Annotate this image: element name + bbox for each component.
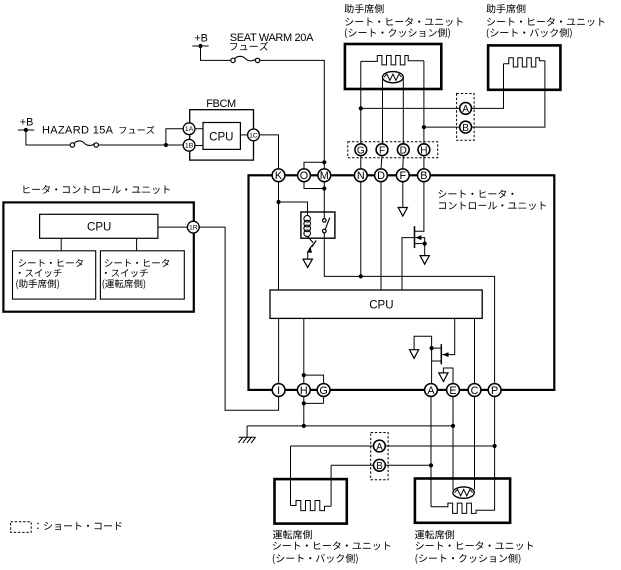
terminal N (top) bbox=[354, 169, 367, 182]
heater control unit box bbox=[3, 202, 193, 311]
passenger seat back label bbox=[486, 4, 525, 13]
seat heater control unit label bbox=[438, 189, 513, 198]
wire P to cushion heater bbox=[494, 396, 496, 510]
svg-text:B: B bbox=[462, 123, 469, 134]
wire CPU to passenger switch bbox=[60, 238, 62, 251]
CPU (seat heater control unit) bbox=[270, 290, 482, 318]
wire CPU to 1R bbox=[158, 226, 188, 228]
wires connectors to terminals bbox=[361, 156, 424, 169]
heater control unit label bbox=[23, 185, 169, 194]
wire relay contact to N and P bbox=[324, 233, 494, 384]
ground (chassis) bbox=[246, 426, 248, 437]
wire N to relay line bbox=[360, 182, 362, 277]
svg-text:G: G bbox=[357, 146, 365, 157]
svg-text:B: B bbox=[376, 461, 383, 472]
wire H to CPU with G bridge bbox=[303, 318, 305, 383]
wire C to CPU bbox=[474, 318, 476, 383]
svg-text:B: B bbox=[420, 170, 427, 182]
connector D bbox=[397, 144, 409, 156]
ground line bbox=[247, 425, 453, 427]
seat heater switch (driver) box bbox=[100, 251, 184, 299]
svg-text:H: H bbox=[300, 385, 308, 397]
terminal G (bottom) bbox=[317, 384, 330, 397]
wire H below box to ground line bbox=[303, 396, 305, 426]
terminal 1R bbox=[187, 221, 199, 233]
seat heater switch (passenger) box bbox=[13, 251, 96, 299]
svg-text:P: P bbox=[491, 385, 498, 397]
relay contact bbox=[323, 219, 327, 223]
svg-text:F: F bbox=[379, 146, 385, 157]
terminal O (top) bbox=[298, 169, 311, 182]
seat heater unit (driver seat back) box bbox=[275, 479, 347, 523]
wire O-M bridge below bbox=[304, 182, 324, 189]
svg-text:CPU: CPU bbox=[87, 222, 111, 234]
svg-text:A: A bbox=[376, 442, 383, 453]
wire SEAT WARM fuse to O/M terminals bbox=[260, 60, 324, 162]
svg-text:E: E bbox=[449, 385, 456, 397]
wire M to relay contact bbox=[323, 189, 325, 219]
wire 1R to terminal I bbox=[199, 227, 278, 410]
transistor Q2 bbox=[414, 226, 416, 248]
terminal A (bottom) bbox=[425, 384, 438, 397]
wire E to cushion thermistor bbox=[452, 396, 454, 489]
driver cushion label bbox=[415, 530, 454, 539]
ground arrow (Q2) bbox=[420, 256, 429, 265]
heater element (passenger cushion) bbox=[361, 56, 424, 65]
wire D to CPU bbox=[380, 182, 382, 290]
wire thermistor to F bbox=[382, 78, 384, 143]
svg-text:N: N bbox=[357, 170, 365, 182]
wire B to transistor Q2 bbox=[415, 182, 424, 232]
wire A-row driver bbox=[291, 446, 374, 506]
terminal 1A bbox=[183, 123, 195, 135]
terminal C (bottom) bbox=[468, 384, 481, 397]
wire G-H bridge below box bbox=[304, 396, 324, 403]
ground arrow (Q3 left) bbox=[410, 350, 419, 359]
thermistor (driver cushion) bbox=[453, 487, 474, 498]
relay K1 bbox=[301, 212, 335, 238]
svg-text:H: H bbox=[420, 146, 427, 157]
svg-text:A: A bbox=[427, 385, 435, 397]
svg-text:FBCM: FBCM bbox=[206, 98, 236, 110]
terminal 1C bbox=[248, 129, 260, 141]
terminal B (top) bbox=[418, 169, 431, 182]
svg-text:1B: 1B bbox=[185, 143, 194, 150]
wire O-M bridge above bbox=[304, 162, 324, 169]
svg-text:M: M bbox=[320, 170, 329, 182]
wire CPU to 1A/1B bbox=[195, 129, 203, 146]
seat heater unit (passenger cushion) box bbox=[345, 44, 441, 89]
terminal E (bottom) bbox=[447, 384, 460, 397]
wire I to CPU bbox=[278, 318, 280, 383]
svg-text:D: D bbox=[377, 170, 385, 182]
svg-text:1C: 1C bbox=[249, 132, 258, 139]
svg-text:D: D bbox=[400, 146, 407, 157]
terminal 1B bbox=[183, 139, 195, 151]
short code connector (G F D H) bbox=[348, 142, 438, 158]
wire K to relay coil and CPU bbox=[278, 182, 280, 290]
terminal K (top) bbox=[272, 169, 285, 182]
wire element to G bbox=[360, 61, 362, 143]
svg-text:G: G bbox=[319, 385, 327, 397]
wire element to connector A bbox=[472, 64, 504, 109]
connector G bbox=[355, 144, 367, 156]
wire F stub bbox=[402, 182, 404, 208]
short code connector (passenger A/B) bbox=[457, 94, 475, 141]
wire Q3 node to ground arrow bbox=[414, 336, 432, 349]
wire G to connector A bbox=[361, 107, 460, 109]
terminal P (bottom) bbox=[488, 384, 501, 397]
CPU (heater control unit) bbox=[40, 214, 158, 238]
legend short code box bbox=[11, 522, 32, 533]
connector A (passenger) bbox=[460, 103, 472, 115]
terminal F (top) bbox=[396, 169, 409, 182]
ground arrow (relay driver) bbox=[303, 259, 312, 267]
heater element (driver cushion) bbox=[431, 503, 495, 513]
wire element to H bbox=[423, 61, 425, 144]
svg-text:+B: +B bbox=[194, 33, 208, 45]
svg-text:1R: 1R bbox=[189, 225, 198, 232]
connector F bbox=[376, 144, 388, 156]
fuse SEAT WARM 20A bbox=[231, 58, 235, 62]
svg-text:1A: 1A bbox=[185, 126, 194, 133]
passenger cushion label bbox=[345, 4, 384, 13]
ground arrow (F) bbox=[398, 208, 407, 217]
wire 1C to terminal K bbox=[259, 135, 278, 169]
short code connector (driver) bbox=[371, 433, 388, 480]
wire HAZARD fuse to FBCM 1A/1B bbox=[99, 144, 184, 146]
seat heater unit (driver cushion) box bbox=[415, 479, 510, 523]
svg-text:O: O bbox=[300, 170, 308, 182]
svg-text:A: A bbox=[462, 104, 469, 115]
svg-text:CPU: CPU bbox=[209, 131, 233, 143]
connector A (driver) bbox=[374, 440, 386, 452]
connector H bbox=[418, 144, 430, 156]
terminal D (top) bbox=[375, 169, 388, 182]
connector B (passenger) bbox=[460, 121, 472, 133]
wire element to connector B bbox=[472, 61, 545, 127]
thermistor (passenger cushion) bbox=[383, 72, 404, 83]
connector B (driver) bbox=[374, 459, 386, 471]
heater element (passenger seat back) bbox=[504, 58, 545, 67]
terminal M (top) bbox=[318, 169, 331, 182]
wire Q3 to terminal A bbox=[431, 348, 433, 384]
svg-text:SEAT WARM 20A: SEAT WARM 20A bbox=[230, 32, 314, 44]
legend label bbox=[37, 522, 121, 530]
svg-text:C: C bbox=[471, 385, 479, 397]
wire CPU to driver switch bbox=[136, 238, 138, 251]
wire B-row driver bbox=[331, 465, 373, 506]
svg-text:I: I bbox=[277, 385, 280, 397]
wire thermistor to D bbox=[402, 78, 404, 143]
terminal I (bottom) bbox=[272, 384, 285, 397]
wire H to connector B bbox=[424, 126, 460, 128]
ground arrow (E) bbox=[439, 373, 448, 382]
seat heater unit (passenger seat back) box bbox=[488, 45, 560, 89]
svg-text:F: F bbox=[399, 170, 406, 182]
heater element (driver seat back) bbox=[291, 501, 332, 511]
wire +B to SEAT WARM fuse bbox=[201, 46, 231, 60]
fuse HAZARD 15A bbox=[70, 143, 74, 147]
svg-text:K: K bbox=[275, 170, 283, 182]
svg-text:HAZARD 15A: HAZARD 15A bbox=[42, 124, 114, 136]
CPU (FBCM) bbox=[203, 123, 240, 150]
wire +B to HAZARD fuse bbox=[26, 130, 70, 145]
wire A to cushion heater bbox=[430, 396, 432, 506]
wire E internal ground arrow bbox=[443, 368, 453, 384]
svg-text:+B: +B bbox=[20, 116, 34, 128]
relay coil bbox=[304, 216, 311, 223]
transistor Q1 (relay driver) bbox=[308, 236, 314, 242]
svg-text:CPU: CPU bbox=[369, 299, 393, 311]
wire C to cushion thermistor bbox=[474, 396, 476, 489]
wire CPU to 1C bbox=[240, 134, 247, 136]
transistor Q3 bbox=[442, 318, 455, 354]
driver seat back label bbox=[273, 530, 312, 539]
seat heater control unit box bbox=[249, 175, 555, 390]
terminal H (bottom) bbox=[297, 384, 310, 397]
